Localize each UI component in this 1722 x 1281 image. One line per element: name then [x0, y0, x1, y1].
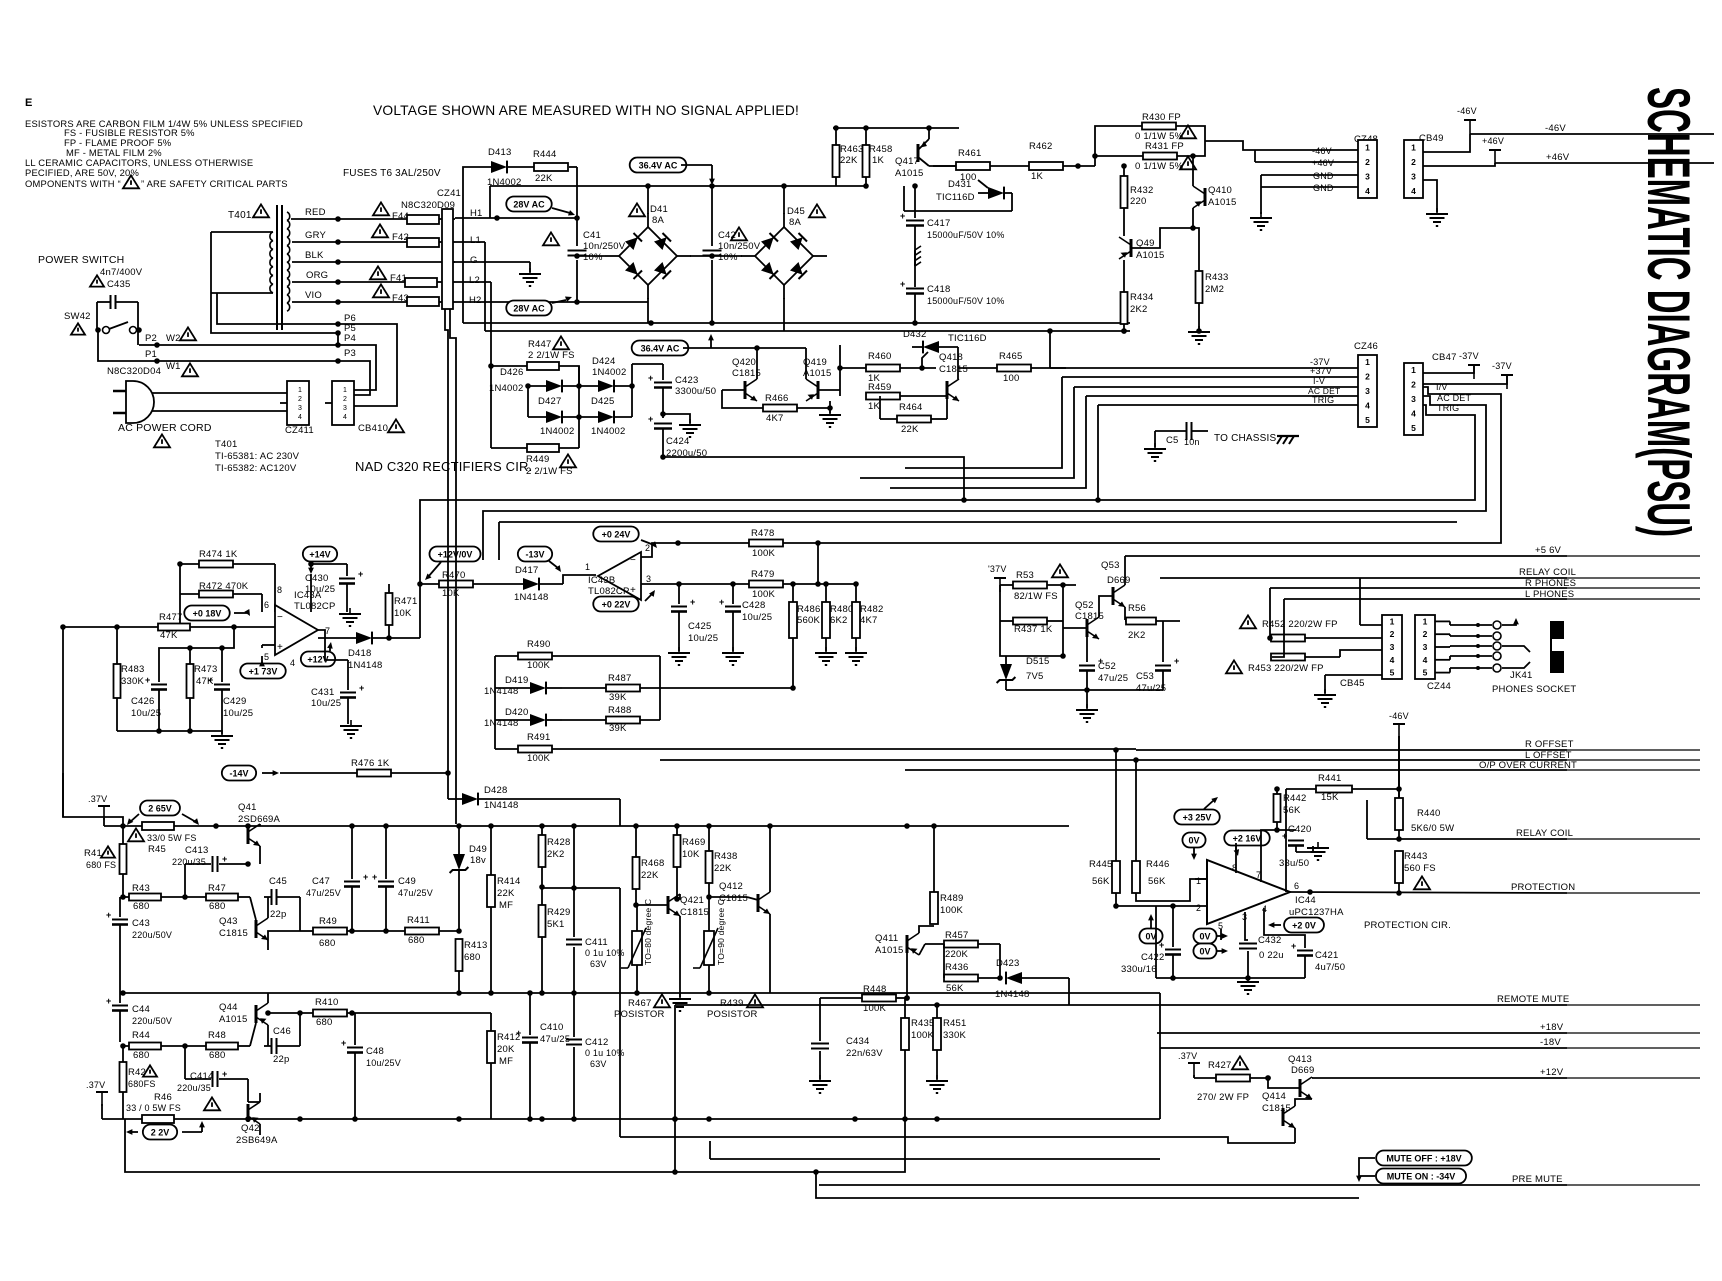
ground C430 [349, 608, 351, 614]
svg-text:4: 4 [298, 414, 302, 421]
svg-text:+0 18V: +0 18V [193, 608, 222, 618]
svg-text:FUSES T6 3AL/250V: FUSES T6 3AL/250V [343, 168, 441, 179]
svg-text:1K: 1K [1031, 171, 1043, 182]
svg-text:CZ44: CZ44 [1427, 681, 1451, 692]
svg-text:C430: C430 [305, 573, 329, 584]
wire q42 node [248, 1101, 260, 1103]
svg-text:R459: R459 [868, 382, 892, 393]
wire rail 1172 [125, 1119, 905, 1172]
ground G [529, 268, 531, 274]
svg-text:+0 24V: +0 24V [602, 529, 631, 539]
svg-text:D669: D669 [1107, 575, 1131, 586]
svg-text:R483: R483 [121, 664, 145, 675]
svg-text:680: 680 [133, 1050, 149, 1061]
svg-text:CB45: CB45 [1340, 678, 1365, 689]
svg-text:D515: D515 [1026, 656, 1050, 667]
wire bridge outs [647, 186, 649, 214]
svg-text:D418: D418 [348, 648, 372, 659]
posistor R467 [632, 931, 642, 965]
svg-text:6K2: 6K2 [830, 615, 848, 626]
svg-text:6: 6 [1294, 881, 1299, 891]
svg-text:D420: D420 [505, 707, 529, 718]
svg-text:C411: C411 [585, 937, 608, 948]
svg-text:R487: R487 [608, 673, 632, 684]
svg-text:R48: R48 [208, 1030, 226, 1041]
svg-text:5: 5 [1411, 423, 1416, 433]
svg-text:1N4148: 1N4148 [995, 989, 1029, 1000]
svg-text:2 2/1W FS: 2 2/1W FS [528, 350, 575, 361]
ground C428 [732, 647, 734, 653]
svg-text:C432: C432 [1258, 935, 1282, 946]
svg-text:4u7/50: 4u7/50 [1315, 962, 1345, 973]
svg-text:100K: 100K [527, 753, 550, 764]
svg-text:R46: R46 [154, 1092, 172, 1103]
svg-text:10u/25V: 10u/25V [366, 1058, 401, 1068]
svg-text:R434: R434 [1130, 292, 1154, 303]
svg-text:10u/25: 10u/25 [688, 633, 718, 644]
svg-text:10n/250V: 10n/250V [718, 241, 761, 252]
svg-text:22p: 22p [270, 909, 286, 920]
svg-text:63V: 63V [590, 959, 607, 969]
svg-text:PECIFIED, ARE 50V, 20%: PECIFIED, ARE 50V, 20% [25, 167, 139, 178]
svg-text:PHONES SOCKET: PHONES SOCKET [1492, 684, 1576, 695]
svg-text:C413: C413 [185, 845, 209, 856]
svg-text:IC44: IC44 [1295, 895, 1316, 906]
svg-text:0V: 0V [1199, 946, 1210, 956]
transformer secondary winding [287, 212, 290, 220]
wire H2 [455, 301, 577, 303]
svg-text:T401: T401 [228, 210, 252, 221]
svg-text:39K: 39K [609, 723, 627, 734]
svg-text:G: G [470, 255, 478, 266]
svg-text:+: + [363, 872, 368, 882]
svg-text:−: − [630, 555, 636, 566]
svg-text:+: + [372, 872, 377, 882]
svg-text:C1815: C1815 [680, 907, 709, 918]
svg-text:R413: R413 [464, 940, 488, 951]
wire cb47 p2 [1423, 375, 1507, 384]
svg-text:7V5: 7V5 [1026, 671, 1044, 682]
svg-text:3: 3 [343, 405, 347, 412]
svg-text:Q43: Q43 [219, 916, 238, 927]
svg-text:R436: R436 [945, 962, 969, 973]
wire relay coil2 [1367, 838, 1567, 840]
svg-text:22K: 22K [714, 863, 732, 874]
op-amp IC44 [1207, 860, 1290, 924]
svg-text:+3 25V: +3 25V [1183, 812, 1212, 822]
svg-text:D432: D432 [903, 329, 927, 340]
svg-text:CB410: CB410 [358, 423, 388, 434]
svg-text:2: 2 [645, 543, 650, 553]
svg-text:+: + [648, 414, 653, 424]
svg-text:1K: 1K [868, 401, 880, 412]
capacitor C42 [703, 250, 722, 252]
svg-text:0V: 0V [1188, 835, 1199, 845]
svg-text:220u/35: 220u/35 [177, 1083, 211, 1093]
svg-text:TI-65381: AC 230V: TI-65381: AC 230V [215, 451, 300, 462]
svg-text:56K: 56K [1092, 876, 1110, 887]
svg-text:uPC1237HA: uPC1237HA [1289, 907, 1344, 918]
svg-text:0 1u 10%: 0 1u 10% [585, 1048, 625, 1058]
svg-text:R43: R43 [132, 883, 150, 894]
svg-text:2: 2 [1365, 372, 1370, 382]
wire L2 pin [453, 281, 455, 283]
svg-text:28V AC: 28V AC [513, 199, 545, 209]
wire rail826a [125, 825, 142, 827]
svg-text:5: 5 [1423, 668, 1428, 678]
svg-text:4: 4 [343, 414, 347, 421]
svg-text:4: 4 [1390, 655, 1395, 665]
wire pin5 [1220, 929, 1222, 940]
capacitor C428 [732, 584, 734, 604]
svg-text:Q41: Q41 [238, 802, 257, 813]
svg-text:−: − [277, 612, 283, 623]
svg-text:R44: R44 [132, 1030, 150, 1041]
node +0 24V [593, 527, 638, 542]
svg-text:220u/50V: 220u/50V [132, 1016, 172, 1026]
resistor R432 [1121, 176, 1128, 208]
posistor R439 [704, 931, 714, 965]
svg-text:R447: R447 [528, 339, 552, 350]
wire +5 6V rail [1125, 555, 1567, 557]
svg-text:2: 2 [1365, 157, 1370, 167]
svg-text:Q42: Q42 [241, 1123, 260, 1134]
wire pin3 row [641, 583, 750, 585]
svg-text:IC43B: IC43B [588, 575, 615, 586]
svg-text:10n: 10n [1184, 437, 1200, 447]
svg-text:33 / 0 5W FS: 33 / 0 5W FS [126, 1103, 181, 1113]
capacitor C43 [119, 897, 121, 917]
svg-text:2: 2 [298, 396, 302, 403]
svg-text:R439: R439 [720, 998, 744, 1009]
svg-text:10u/25: 10u/25 [305, 584, 335, 595]
wire pin2 row [1116, 905, 1207, 907]
svg-text:1: 1 [343, 387, 347, 394]
svg-text:I/V: I/V [1436, 382, 1448, 392]
phones socket JK41 wires [1435, 620, 1450, 622]
svg-text:Q53: Q53 [1101, 560, 1120, 571]
svg-text:NAD C320 RECTIFIERS CIR.: NAD C320 RECTIFIERS CIR. [355, 459, 532, 474]
wire R478 drop [817, 543, 819, 584]
capacitor C423 [662, 364, 664, 380]
wire PROTECTION [1290, 892, 1567, 893]
svg-text:+: + [719, 597, 724, 607]
resistor R41 [120, 844, 127, 874]
svg-text:R444: R444 [533, 149, 557, 160]
svg-text:+: + [1291, 941, 1296, 951]
svg-text:R446: R446 [1146, 859, 1170, 870]
svg-text:TO CHASSIS: TO CHASSIS [1214, 433, 1277, 444]
svg-text:5: 5 [1365, 415, 1370, 425]
resistor R480 [822, 602, 830, 638]
svg-text:C1815: C1815 [939, 364, 968, 375]
svg-text:A1015: A1015 [1136, 250, 1164, 261]
svg-text:VIO: VIO [305, 290, 322, 301]
svg-text:560 FS: 560 FS [1404, 863, 1436, 874]
node +2 16V [1224, 831, 1269, 846]
svg-text:4: 4 [290, 658, 295, 668]
svg-text:Q421: Q421 [680, 895, 704, 906]
node 0V b [1139, 929, 1162, 944]
wire vert 456 [450, 309, 456, 824]
capacitor C52 [1086, 637, 1088, 662]
capacitor C422 [1172, 906, 1174, 947]
resistor R489 [930, 892, 938, 924]
ground R480 [825, 647, 827, 653]
svg-text:2M2: 2M2 [1205, 284, 1224, 295]
chassis C417 [914, 250, 916, 266]
wire left drop [63, 773, 123, 826]
svg-text:R429: R429 [547, 907, 571, 918]
svg-text:+: + [277, 642, 283, 653]
svg-text:D41: D41 [650, 204, 668, 215]
op-amp IC43A [275, 605, 318, 655]
svg-text:R445: R445 [1089, 859, 1113, 870]
ground C5 [1154, 443, 1156, 449]
svg-text:R452 220/2W FP: R452 220/2W FP [1262, 619, 1338, 630]
resistor R435 [901, 1018, 909, 1050]
svg-text:Q44: Q44 [219, 1002, 238, 1013]
svg-text:C53: C53 [1136, 671, 1154, 682]
svg-text:+: + [900, 211, 905, 221]
svg-text:1: 1 [1390, 616, 1395, 626]
wire c418 top [914, 264, 916, 287]
svg-text:SCHEMATIC DIAGRAM(PSU): SCHEMATIC DIAGRAM(PSU) [1635, 87, 1702, 537]
svg-text:330u/16: 330u/16 [1121, 964, 1157, 975]
svg-text:680FS: 680FS [128, 1079, 156, 1089]
svg-text:R437 1K: R437 1K [1014, 624, 1053, 635]
resistor R429 [539, 905, 546, 937]
svg-text:POSISTOR: POSISTOR [707, 1009, 758, 1020]
svg-text:MUTE ON : -34V: MUTE ON : -34V [1387, 1171, 1456, 1181]
svg-text:R464: R464 [899, 402, 923, 413]
svg-text:R460: R460 [868, 351, 892, 362]
wire VIO tap [292, 301, 407, 303]
svg-text:R474 1K: R474 1K [199, 549, 238, 560]
svg-text:C49: C49 [398, 876, 416, 887]
svg-text:2: 2 [1196, 903, 1201, 913]
svg-text:AC DET: AC DET [1437, 393, 1472, 403]
svg-text:C428: C428 [742, 600, 766, 611]
resistor R473 [187, 664, 194, 698]
svg-text:10%: 10% [718, 252, 738, 263]
svg-text:R432: R432 [1130, 185, 1154, 196]
svg-text:3: 3 [646, 574, 651, 584]
node 36.4VAC lower [632, 341, 689, 356]
svg-text:R478: R478 [751, 528, 775, 539]
svg-text:22K: 22K [641, 870, 659, 881]
node +0 22V [593, 597, 638, 612]
wire c424 bottom [663, 457, 964, 500]
svg-text:-46V: -46V [1545, 123, 1566, 134]
wire RED tap [291, 218, 407, 220]
wire rail 186 [490, 185, 866, 187]
svg-text:CB47: CB47 [1432, 352, 1457, 363]
svg-text:R453 220/2W FP: R453 220/2W FP [1248, 663, 1324, 674]
svg-text:R479: R479 [751, 569, 775, 580]
svg-text:R463: R463 [840, 144, 864, 155]
svg-text:-46V: -46V [1389, 711, 1409, 721]
svg-text:R435: R435 [911, 1018, 935, 1029]
svg-text:+0 22V: +0 22V [602, 599, 631, 609]
svg-text:680: 680 [209, 901, 225, 912]
svg-text:1N4148: 1N4148 [348, 660, 382, 671]
svg-text:A1015: A1015 [219, 1014, 247, 1025]
ground C431 [350, 720, 352, 726]
svg-text:47u/25: 47u/25 [1136, 683, 1166, 694]
capacitor C421 [1297, 950, 1313, 952]
capacitor C429 [221, 648, 223, 682]
svg-text:C47: C47 [312, 876, 330, 887]
svg-text:220u/50V: 220u/50V [132, 930, 172, 940]
svg-text:C418: C418 [927, 284, 951, 295]
wire vert 675 [674, 1005, 676, 1172]
svg-text:C423: C423 [675, 375, 699, 386]
wire +18V [1157, 1032, 1567, 1034]
svg-text:R473: R473 [194, 664, 218, 675]
wire pin3 [1245, 912, 1248, 940]
svg-text:1N4148: 1N4148 [514, 592, 548, 603]
resistor R412 [487, 1031, 495, 1063]
svg-text:-14V: -14V [229, 768, 248, 778]
svg-text:5K1: 5K1 [547, 919, 565, 930]
capacitor C47 [351, 826, 353, 879]
node +12V/0V [429, 547, 480, 562]
resistor R483 [114, 664, 121, 698]
svg-text:560K: 560K [797, 615, 820, 626]
resistor R482 [852, 602, 860, 638]
wire L2 [455, 281, 491, 283]
svg-text:R427: R427 [1208, 1060, 1232, 1071]
svg-text:MF: MF [499, 1056, 513, 1067]
wire H1 rail [455, 217, 577, 219]
wire q411 base [906, 953, 908, 998]
wire cb47 p1 [1423, 365, 1474, 373]
svg-text:R433: R433 [1205, 272, 1229, 283]
svg-text:D431: D431 [948, 179, 972, 190]
resistor R445 [1112, 861, 1120, 893]
svg-text:N8C320D04: N8C320D04 [107, 366, 161, 377]
svg-text:R486: R486 [797, 604, 821, 615]
wire R446 up [1135, 760, 1137, 861]
svg-text:R468: R468 [641, 858, 665, 869]
svg-text:+: + [1282, 831, 1287, 841]
resistor R442 [1274, 794, 1281, 822]
svg-text:+2 16V: +2 16V [1233, 833, 1262, 843]
wire rail 1119 [238, 1118, 1160, 1120]
wire C41 column [576, 167, 578, 246]
wire H1 pin [453, 218, 455, 220]
svg-text:82/1W FS: 82/1W FS [1014, 591, 1058, 602]
svg-text:15000uF/50V 10%: 15000uF/50V 10% [927, 230, 1005, 240]
op-amp IC43B [598, 552, 641, 600]
svg-text:2: 2 [1390, 629, 1395, 639]
svg-text:3: 3 [298, 405, 302, 412]
wire pin2 loop [641, 543, 750, 557]
fuse F41 [370, 266, 386, 279]
svg-text:R414: R414 [497, 876, 521, 887]
svg-text:+: + [900, 279, 905, 289]
svg-text:D427: D427 [538, 396, 562, 407]
svg-text:100K: 100K [752, 589, 775, 600]
svg-text:63V: 63V [590, 1059, 607, 1069]
ground cluster [221, 730, 223, 736]
wire rail 323 [463, 322, 1130, 324]
svg-text:22K: 22K [497, 888, 515, 899]
svg-text:TL082CP: TL082CP [294, 601, 336, 612]
svg-text:2: 2 [1411, 157, 1416, 167]
svg-text:4K7: 4K7 [860, 615, 878, 626]
wire AC DET [1086, 395, 1358, 397]
wire R445 up [1115, 750, 1117, 861]
fuse F44 [373, 202, 389, 215]
svg-text:R449: R449 [526, 454, 550, 465]
svg-text:C46: C46 [273, 1026, 291, 1037]
svg-text:R411: R411 [407, 915, 430, 926]
svg-text:+14V: +14V [309, 549, 330, 559]
svg-text:.37V: .37V [86, 1080, 105, 1090]
svg-text:+: + [145, 675, 150, 685]
svg-text:39K: 39K [609, 692, 627, 703]
svg-text:0V: 0V [1199, 931, 1210, 941]
wire P4 [139, 345, 376, 390]
svg-text:R480: R480 [830, 604, 854, 615]
svg-text:TO=80 degree C: TO=80 degree C [643, 899, 653, 965]
svg-text:6: 6 [264, 600, 269, 610]
svg-text:R41: R41 [84, 848, 102, 859]
svg-text:BLK: BLK [305, 250, 324, 261]
svg-text:TL082CP: TL082CP [588, 586, 630, 597]
wire +37V [1062, 376, 1358, 378]
svg-text:4K7: 4K7 [766, 413, 784, 424]
svg-text:C1815: C1815 [219, 928, 248, 939]
node +14V [303, 547, 337, 562]
capacitor C49 [385, 826, 387, 879]
svg-text:15000uF/50V 10%: 15000uF/50V 10% [927, 296, 1005, 306]
svg-text:2 65V: 2 65V [148, 803, 172, 813]
svg-text:C420: C420 [1288, 824, 1312, 835]
wire cb49 out1 [1423, 134, 1470, 152]
capacitor C417 [914, 186, 916, 218]
wire cb49 gnd [1423, 180, 1437, 212]
svg-text:47K: 47K [160, 630, 178, 641]
ground R433 [1198, 326, 1200, 332]
svg-text:PRE MUTE: PRE MUTE [1512, 1174, 1563, 1185]
svg-text:GND: GND [1313, 183, 1334, 193]
svg-text:330K: 330K [943, 1030, 966, 1041]
wire q43 em [268, 931, 300, 940]
svg-text:5K6/0 5W: 5K6/0 5W [1411, 823, 1454, 834]
svg-text:+46V: +46V [1546, 152, 1570, 163]
resistor R471 [386, 593, 393, 625]
svg-text:RELAY COIL: RELAY COIL [1519, 567, 1576, 578]
svg-text:R470: R470 [442, 570, 466, 581]
node -13V [518, 547, 552, 562]
wire PRE MUTE [819, 1184, 1567, 1186]
resistor R434 [1121, 292, 1128, 324]
wire L1 down [455, 241, 485, 243]
svg-text:D428: D428 [484, 785, 508, 796]
wire ORG tap [292, 281, 405, 283]
svg-text:TO=90 degree C: TO=90 degree C [716, 899, 726, 965]
ground C424 [689, 419, 691, 425]
svg-text:P1: P1 [145, 349, 157, 360]
capacitor C53 [1162, 621, 1164, 662]
wire rail 1171 [672, 1169, 678, 1175]
wire top rail 128 [833, 127, 959, 129]
connector CZ41 [442, 209, 453, 309]
svg-text:A1015: A1015 [1208, 197, 1236, 208]
